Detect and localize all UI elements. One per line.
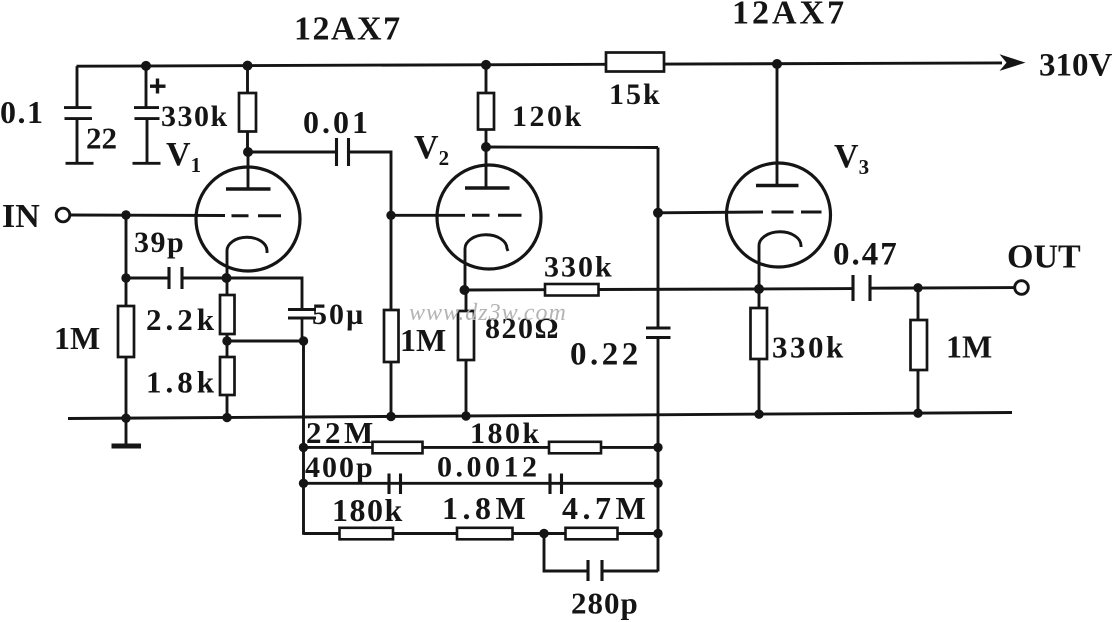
resistor R15 1.8M ladder row3 [457, 528, 513, 540]
wire ladder row2 (400p / 0.0012) [304, 482, 659, 485]
capacitor C10 280p [588, 560, 602, 581]
node rail above C2 [141, 61, 151, 71]
wire V2 grid node to tube V2 [391, 214, 465, 217]
wire V1 anode node to 0.01 cap [248, 151, 335, 154]
svg-text:4.7M: 4.7M [562, 490, 650, 526]
node V2 cathode [460, 285, 470, 295]
resistor R16 4.7M ladder row3 [566, 528, 618, 540]
node V1 cathode [222, 273, 232, 283]
wire 0.01 cap to V2 grid vertical [349, 152, 392, 310]
resistor R14 180k ladder row3 [340, 528, 394, 540]
OUT terminal [1015, 281, 1029, 295]
svg-text:1M: 1M [946, 329, 992, 365]
resistor R2 1M input grid [118, 278, 134, 418]
resistor R9 330k feedback V2-V3 [545, 284, 599, 296]
capacitor C5 50u cathode bypass [288, 310, 316, 342]
node input junction [121, 210, 130, 219]
node 39p left [121, 273, 130, 282]
svg-text:0.01: 0.01 [303, 104, 371, 140]
svg-text:15k: 15k [609, 78, 662, 111]
node 1M input at bus [121, 414, 130, 423]
wire IN terminal to V1 grid [70, 214, 225, 217]
node OUT / R11 [913, 283, 922, 292]
resistor R5 1.8k [220, 341, 235, 418]
svg-text:310V: 310V [1039, 48, 1113, 84]
node 50u bottom / ladder top [299, 336, 308, 345]
wire bottom ground bus [68, 413, 1012, 419]
V1 cathode [227, 237, 267, 278]
resistor R8 820 ohm V2 cathode [458, 290, 474, 416]
IN terminal [56, 208, 70, 222]
capacitor C8 400p ladder row2 [389, 474, 401, 495]
ground symbol [112, 444, 142, 449]
wire V1 cathode node to 50u top [226, 278, 302, 310]
node V2 anode [481, 142, 491, 152]
wire ladder row1 (22M / 180k) [304, 446, 659, 449]
wire B+ rail 310V [77, 63, 1003, 66]
svg-text:0.47: 0.47 [833, 237, 899, 273]
resistor R13 180k ladder row1 [549, 442, 601, 454]
svg-text:22M: 22M [306, 415, 377, 450]
node R4 at bus [386, 412, 395, 421]
svg-text:330k: 330k [544, 251, 614, 284]
node rail above R6 [481, 60, 491, 70]
V3 grid dashes [772, 211, 794, 214]
tube V3 12AX7 [727, 64, 831, 289]
node 2.2k/1.8k junction [222, 336, 231, 345]
wire V3 cathode node to 0.47 cap [759, 287, 853, 290]
B+ arrow head [1000, 54, 1026, 71]
wire ladder row3 (180k / 1.8M / 4.7M) [304, 532, 659, 535]
svg-text:12AX7: 12AX7 [732, 0, 847, 32]
tube V2 12AX7 [437, 147, 541, 290]
node ladder row1 left [299, 443, 308, 452]
V1 anode bar [226, 187, 271, 191]
capacitor C1 0.1 [64, 108, 94, 164]
node rail above V3 [772, 59, 782, 69]
resistor R11 1M output [911, 288, 928, 413]
V1 grid dashes [232, 214, 249, 217]
wire V3 grid tap to tube V3 [658, 211, 763, 215]
V2 anode bar [465, 186, 510, 190]
svg-text:330k: 330k [772, 330, 846, 365]
capacitor C2 22uF electrolytic [133, 66, 161, 163]
plus sign of C2 [150, 79, 166, 94]
V2 cathode [465, 235, 508, 290]
capacitor C4 39p [169, 267, 182, 289]
svg-text:120k: 120k [512, 100, 584, 133]
svg-text:1.8k: 1.8k [146, 365, 218, 400]
wire V2 cathode to 330k [464, 288, 545, 291]
wire feedback ladder left rail [302, 341, 305, 535]
resistor R7 15k in B+ rail [606, 53, 664, 72]
node V3 cathode [754, 284, 764, 294]
wire 39p right plate to V1 cathode node [182, 277, 226, 280]
tube V1 12AX7 [196, 152, 300, 278]
svg-text:12AX7: 12AX7 [294, 11, 402, 48]
capacitor C6 0.22 [646, 328, 671, 338]
svg-text:1M: 1M [400, 322, 446, 358]
resistor R4 1M V2 grid [384, 310, 399, 417]
capacitor C9 0.0012 ladder row2 [550, 474, 562, 495]
node ladder row3 right [653, 529, 662, 538]
node ladder row2 left [299, 479, 308, 488]
svg-text:OUT: OUT [1007, 239, 1081, 276]
node R8 at bus [461, 411, 470, 420]
wire rail corner down to capacitor 0.1 [76, 66, 79, 107]
capacitor C7 0.47 output [853, 275, 870, 301]
wire 280p to right rail [602, 570, 658, 573]
V1 anode lead [247, 152, 250, 189]
svg-text:280p: 280p [571, 586, 639, 621]
node R10 at bus [754, 410, 763, 419]
resistor R12 22M ladder row1 [373, 442, 423, 454]
V3 anode bar [756, 184, 799, 188]
wire V2 anode node to right feedback rail [486, 146, 658, 149]
resistor R10 330k V3 cathode [751, 289, 768, 414]
wire 2.2k/1.8k junction to 50u bottom node [227, 340, 304, 343]
V2 grid dashes [472, 214, 490, 217]
node V1 anode [243, 147, 253, 157]
svg-text:1.8M: 1.8M [442, 490, 530, 526]
wire 330k to V3 cathode node [599, 288, 760, 291]
svg-text:50µ: 50µ [312, 298, 365, 331]
node V3 grid tap [653, 208, 663, 218]
wire ground stub [125, 418, 128, 444]
resistor R1 330k V1 plate load [239, 65, 256, 152]
svg-text:22: 22 [86, 121, 117, 156]
node 1.8k at bus [222, 413, 231, 422]
V3 anode lead [776, 64, 779, 186]
node R11 at bus [913, 409, 922, 418]
svg-text:2.2k: 2.2k [146, 302, 218, 337]
node ladder row1 right [653, 443, 662, 452]
wire 39p node to left plate [126, 277, 169, 280]
svg-text:IN: IN [2, 198, 40, 235]
svg-text:0.22: 0.22 [570, 337, 642, 373]
resistor R6 120k V2 plate load [478, 64, 494, 147]
node ladder row2 right [653, 479, 662, 488]
wire input node down to 39p node [125, 215, 128, 278]
svg-text:180k: 180k [470, 417, 542, 450]
node rail above R1 [243, 61, 253, 71]
svg-text:0.0012: 0.0012 [437, 451, 541, 484]
resistor R3 2.2k V1 cathode [220, 278, 235, 341]
wire 0.47 cap to OUT terminal [870, 286, 1015, 290]
wire right feedback rail lower (0.22 cap to ladder) [657, 338, 660, 572]
svg-text:www.dz3w.com: www.dz3w.com [409, 300, 567, 326]
svg-text:180k: 180k [332, 492, 404, 528]
wire right feedback rail upper (to 0.22 cap) [657, 148, 660, 329]
wire 280p branch [544, 534, 588, 572]
svg-text:1M: 1M [54, 320, 100, 356]
node V2 grid [386, 211, 395, 220]
V3 cathode [759, 232, 801, 289]
V2 anode lead [485, 147, 488, 188]
svg-text:400p: 400p [305, 451, 375, 484]
node 1.8M/4.7M junction [539, 529, 548, 538]
svg-text:330k: 330k [161, 100, 229, 133]
svg-text:39p: 39p [134, 226, 185, 259]
capacitor C3 0.01 coupling [337, 138, 349, 166]
svg-text:0.1: 0.1 [0, 94, 45, 130]
